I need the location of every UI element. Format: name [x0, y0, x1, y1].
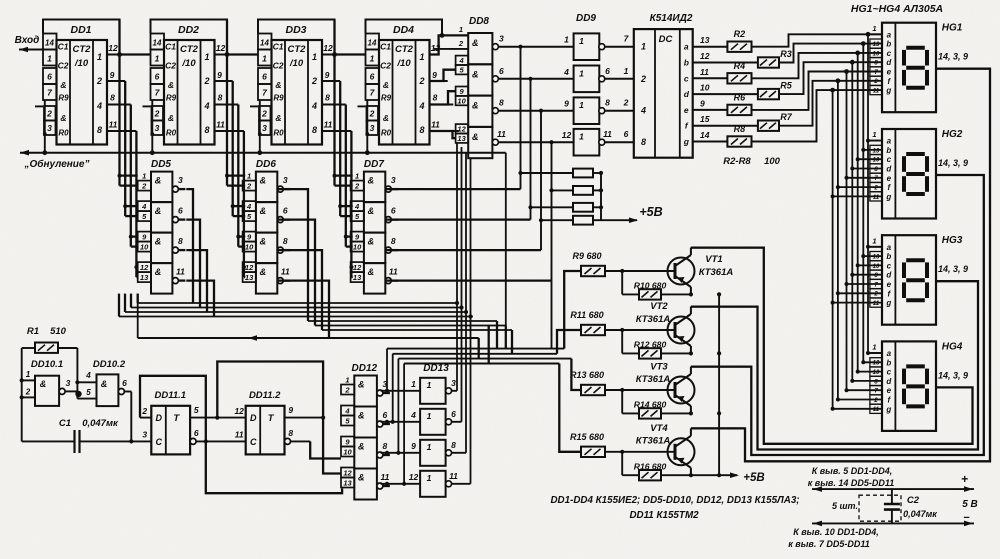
svg-text:9: 9: [288, 405, 293, 415]
svg-text:2: 2: [246, 182, 252, 191]
resistor R14 680: [621, 390, 623, 413]
route DD11.1 Qn to DD12.13: [206, 441, 342, 493]
svg-text:13: 13: [873, 361, 880, 367]
svg-text:b: b: [886, 358, 891, 367]
svg-text:&: &: [368, 206, 375, 216]
svg-text:d: d: [684, 89, 690, 99]
svg-text:1: 1: [427, 442, 432, 452]
DD4 out 9 wire: [430, 80, 448, 82]
transistor VT4 KT361A: [668, 438, 695, 465]
DD4 reset wiring: [366, 100, 368, 153]
svg-text:&: &: [168, 80, 174, 90]
svg-text:b: b: [886, 40, 891, 49]
svg-text:R9 680: R9 680: [572, 251, 601, 261]
resistor R16 680: [621, 452, 623, 475]
svg-text:1: 1: [355, 172, 359, 181]
svg-text:12: 12: [323, 43, 333, 53]
svg-text:e: e: [887, 174, 892, 183]
svg-text:8: 8: [391, 236, 396, 246]
svg-text:DD10.1: DD10.1: [31, 359, 63, 370]
svg-text:6: 6: [499, 66, 504, 76]
svg-text:R0: R0: [273, 129, 284, 138]
svg-text:11: 11: [497, 129, 506, 139]
svg-text:к выв. 7 DD5-DD11: к выв. 7 DD5-DD11: [788, 539, 869, 549]
svg-text:DD12: DD12: [352, 363, 378, 374]
svg-text:КТ361А: КТ361А: [699, 267, 734, 278]
svg-text:14, 3, 9: 14, 3, 9: [938, 370, 968, 380]
svg-text:13: 13: [873, 148, 880, 154]
svg-text:3: 3: [178, 175, 183, 185]
svg-text:R8: R8: [734, 124, 746, 134]
svg-text:2: 2: [141, 182, 147, 191]
svg-text:4: 4: [354, 202, 360, 211]
svg-text:C1: C1: [58, 42, 69, 52]
display HG1 AL305A: [882, 23, 936, 113]
svg-text:9: 9: [432, 70, 437, 80]
svg-text:6: 6: [194, 428, 199, 438]
svg-text:9: 9: [700, 98, 705, 108]
transistor VT3 KT361A: [668, 377, 695, 404]
wire HG4 common to VT1: [691, 248, 973, 444]
svg-text:11: 11: [873, 195, 880, 201]
counter DD4 K155IE2: [366, 20, 443, 36]
svg-text:&: &: [40, 379, 47, 389]
svg-text:К выв. 5 DD1-DD4,: К выв. 5 DD1-DD4,: [812, 466, 893, 476]
svg-text:12: 12: [140, 263, 149, 272]
svg-text:13: 13: [140, 273, 149, 282]
svg-text:8: 8: [204, 125, 209, 135]
svg-text:CT2: CT2: [288, 44, 307, 55]
svg-text:HG1~HG4 АЛ305А: HG1~HG4 АЛ305А: [851, 3, 943, 15]
svg-text:К выв. 10 DD1-DD4,: К выв. 10 DD1-DD4,: [793, 527, 879, 537]
wires DD2 outputs down to DD6: [226, 20, 228, 186]
svg-text:8: 8: [283, 236, 288, 246]
svg-text:14: 14: [368, 39, 377, 48]
svg-text:c: c: [887, 261, 892, 270]
svg-text:e: e: [887, 68, 892, 77]
DD3 out 8 wire: [322, 104, 346, 106]
svg-text:3: 3: [370, 123, 375, 133]
svg-text:C1: C1: [165, 42, 176, 52]
svg-text:14: 14: [700, 130, 710, 140]
svg-text:5: 5: [86, 388, 91, 397]
svg-text:4: 4: [459, 56, 465, 65]
display HG4 AL305A: [882, 341, 936, 431]
inverter DD13.2: [420, 409, 446, 435]
svg-text:&: &: [472, 69, 479, 79]
svg-text:&: &: [368, 267, 375, 277]
svg-text:3: 3: [283, 175, 288, 185]
svg-text:4: 4: [563, 67, 569, 77]
svg-text:11: 11: [216, 120, 225, 130]
svg-text:1: 1: [155, 54, 160, 64]
wire into DD8 pin2: [434, 48, 468, 50]
svg-text:CT2: CT2: [395, 44, 414, 55]
svg-text:10: 10: [245, 243, 254, 252]
svg-text:1: 1: [872, 24, 876, 33]
inverter DD9.1: [574, 33, 600, 60]
wire HG1 common to VT4: [691, 69, 990, 462]
svg-text:4: 4: [85, 371, 91, 380]
svg-text:HG1: HG1: [942, 23, 963, 34]
resistor R10 680: [621, 271, 623, 294]
svg-text:12: 12: [409, 472, 419, 482]
svg-text:R7: R7: [780, 112, 792, 122]
wire DD11.2 Q: [285, 417, 324, 419]
svg-text:8: 8: [288, 428, 293, 438]
transistor VT1 KT361A: [668, 258, 695, 285]
svg-text:13: 13: [245, 273, 254, 282]
svg-text:1: 1: [872, 236, 876, 245]
inverter DD9.3: [574, 97, 600, 124]
svg-text:C1: C1: [59, 418, 71, 429]
svg-text:HG3: HG3: [942, 235, 963, 246]
svg-text:1: 1: [247, 172, 251, 181]
svg-text:1: 1: [370, 54, 375, 64]
svg-text:1: 1: [564, 35, 569, 45]
svg-text:2: 2: [873, 79, 878, 85]
svg-text:13: 13: [873, 255, 880, 261]
svg-text:1: 1: [872, 343, 876, 352]
svg-text:e: e: [887, 280, 892, 289]
wire cascade DD1.12 -> DD2.C1: [120, 53, 151, 55]
svg-text:0,047мк: 0,047мк: [903, 509, 937, 519]
svg-text:e: e: [887, 386, 892, 395]
wire DD11.1 Qn row: [196, 440, 246, 442]
svg-text:1: 1: [459, 25, 463, 34]
DD3 out 12 wire: [322, 54, 335, 56]
DD3 reset wiring: [259, 100, 261, 153]
strobe verticals DD13 outputs up: [456, 143, 458, 391]
svg-text:c: c: [887, 368, 892, 377]
DD4 out 11 wire: [430, 130, 459, 132]
svg-text:Вход: Вход: [15, 35, 40, 46]
svg-text:a: a: [887, 30, 892, 39]
resistor R5 100: [693, 93, 758, 95]
svg-text:R5: R5: [780, 81, 792, 91]
svg-text:VT2: VT2: [650, 301, 668, 312]
collector rails: [691, 247, 764, 249]
DD11.1 feedback bracket: [140, 376, 206, 442]
DD3 out 11 wire: [322, 130, 351, 132]
inverter DD9.2: [574, 66, 600, 93]
svg-text:12: 12: [343, 469, 352, 478]
svg-text:2: 2: [873, 398, 878, 404]
svg-text:HG2: HG2: [942, 129, 963, 140]
svg-text:b: b: [684, 58, 689, 68]
svg-text:8: 8: [218, 93, 223, 103]
svg-text:/10: /10: [396, 58, 411, 69]
svg-text:1: 1: [624, 66, 629, 76]
svg-text:10: 10: [873, 51, 880, 57]
svg-text:8: 8: [97, 125, 102, 135]
DD1 out 12 wire: [107, 54, 120, 56]
svg-text:1: 1: [579, 36, 584, 46]
svg-text:R16 680: R16 680: [634, 461, 667, 471]
svg-text:&: &: [260, 267, 267, 277]
svg-text:3: 3: [451, 378, 456, 388]
svg-text:11: 11: [873, 301, 880, 307]
svg-text:C2: C2: [380, 61, 391, 71]
svg-text:11: 11: [449, 471, 458, 481]
svg-text:1: 1: [579, 68, 584, 78]
svg-text:4: 4: [246, 202, 252, 211]
svg-text:К514ИД2: К514ИД2: [650, 13, 693, 24]
svg-text:&: &: [60, 113, 66, 123]
wires DD4 outputs to DD8 inputs: [430, 35, 469, 54]
svg-text:c: c: [684, 73, 689, 83]
svg-text:C1: C1: [380, 42, 391, 52]
svg-text:3: 3: [499, 34, 504, 44]
wire cascade DD3.12 -> DD4.C1: [335, 53, 366, 55]
svg-text:DD2: DD2: [178, 24, 199, 36]
svg-text:&: &: [358, 411, 365, 421]
wire R4 to segment bus: [752, 53, 883, 78]
wire HG2 common to VT3: [691, 175, 984, 455]
resistor R3 100: [693, 62, 758, 64]
svg-text:R9: R9: [273, 94, 284, 103]
svg-text:&: &: [472, 38, 479, 48]
svg-text:8: 8: [383, 441, 388, 451]
svg-text:HG4: HG4: [942, 341, 963, 352]
svg-text:&: &: [101, 379, 108, 389]
svg-text:b: b: [886, 146, 891, 155]
svg-text:/10: /10: [74, 58, 89, 69]
svg-text:DD3: DD3: [285, 24, 306, 36]
svg-text:DC: DC: [659, 34, 673, 45]
wire R7 to segment bus: [779, 81, 882, 126]
DD2 reset wiring: [151, 100, 153, 153]
svg-text:к выв. 14 DD5-DD11: к выв. 14 DD5-DD11: [808, 478, 894, 488]
svg-text:КТ361А: КТ361А: [636, 374, 671, 385]
svg-text:D: D: [156, 413, 163, 423]
svg-text:c: c: [887, 155, 892, 164]
svg-text:10: 10: [353, 243, 362, 252]
svg-text:8: 8: [433, 93, 438, 103]
svg-text:C1: C1: [273, 42, 284, 52]
svg-text:2: 2: [141, 406, 147, 416]
svg-text:10: 10: [873, 370, 880, 376]
svg-text:VT4: VT4: [650, 423, 668, 434]
svg-text:DD9: DD9: [576, 13, 596, 24]
svg-text:11: 11: [873, 89, 880, 95]
svg-text:13: 13: [700, 35, 710, 45]
svg-text:1: 1: [204, 52, 209, 62]
svg-text:2: 2: [25, 388, 31, 397]
svg-text:2: 2: [154, 109, 160, 119]
DD6 output drop wires: [277, 189, 308, 321]
svg-text:3: 3: [142, 430, 147, 440]
DD11.2 feedback bracket: [217, 362, 323, 418]
svg-text:R6: R6: [734, 92, 746, 102]
svg-text:8: 8: [325, 93, 330, 103]
svg-text:DD10.2: DD10.2: [93, 359, 126, 370]
svg-text:КТ361А: КТ361А: [636, 314, 671, 325]
svg-text:/10: /10: [289, 58, 304, 69]
svg-text:8: 8: [605, 98, 610, 108]
svg-text:&: &: [260, 206, 267, 216]
svg-text:3: 3: [47, 123, 52, 133]
svg-text:14, 3, 9: 14, 3, 9: [938, 264, 968, 274]
svg-text:4: 4: [203, 101, 209, 111]
svg-text:4: 4: [344, 407, 350, 416]
svg-text:12: 12: [562, 130, 572, 140]
wire cascade DD2.12 -> DD3.C1: [227, 53, 258, 55]
wire R2 to segment bus: [752, 34, 883, 46]
svg-text:R0: R0: [58, 129, 69, 138]
resistor R11 680: [581, 325, 605, 335]
svg-text:11: 11: [873, 407, 880, 413]
svg-text:9: 9: [217, 70, 222, 80]
strobe wire bundle (middle): [138, 302, 456, 304]
svg-text:5 В: 5 В: [962, 499, 978, 510]
inverter DD13.1: [420, 378, 446, 404]
svg-text:6: 6: [624, 129, 629, 139]
svg-text:&: &: [383, 80, 389, 90]
svg-text:R12 680: R12 680: [634, 340, 667, 350]
resistor R13 680: [581, 385, 605, 395]
svg-text:DD5: DD5: [151, 159, 171, 170]
resistor R9 680: [581, 266, 605, 276]
svg-text:1: 1: [47, 54, 52, 64]
svg-text:6: 6: [391, 206, 396, 216]
svg-text:C: C: [250, 437, 257, 447]
vertical seg near x551 down to bus: [551, 281, 553, 349]
svg-text:8: 8: [641, 137, 646, 147]
svg-text:9: 9: [564, 99, 569, 109]
svg-text:1: 1: [579, 100, 584, 110]
svg-text:+5В: +5В: [639, 205, 662, 219]
svg-text:DD6: DD6: [256, 159, 276, 170]
wire DD11.1 Q to DD11.2 D: [190, 417, 246, 419]
digit select bus to R9/R11/R13/R15: [387, 348, 564, 350]
svg-text:8: 8: [419, 125, 424, 135]
svg-text:11: 11: [324, 120, 333, 130]
svg-text:1: 1: [641, 42, 646, 52]
svg-text:2: 2: [311, 76, 317, 86]
svg-text:DD13: DD13: [423, 363, 449, 374]
wire R1 left vertical: [21, 348, 23, 441]
svg-text:1: 1: [411, 379, 416, 389]
svg-text:6: 6: [178, 206, 183, 216]
inverter DD9.4: [574, 129, 600, 156]
svg-text:12: 12: [353, 263, 362, 272]
svg-text:b: b: [886, 252, 891, 261]
svg-text:&: &: [60, 80, 66, 90]
svg-text:&: &: [155, 267, 162, 277]
svg-text:10: 10: [700, 83, 710, 93]
resistor R4 100: [693, 77, 728, 79]
svg-text:8: 8: [312, 125, 317, 135]
svg-text:C2: C2: [58, 61, 69, 71]
svg-text:1: 1: [97, 52, 102, 62]
svg-text:1: 1: [312, 52, 317, 62]
svg-text:&: &: [358, 473, 365, 483]
svg-text:R1: R1: [27, 326, 39, 337]
svg-text:R3: R3: [780, 49, 792, 59]
wire DD10.2 out down to C: [130, 392, 132, 442]
svg-text:CT2: CT2: [180, 44, 199, 55]
counter DD3 K155IE2: [258, 20, 335, 55]
svg-text:14, 3, 9: 14, 3, 9: [938, 158, 968, 168]
svg-text:R15 680: R15 680: [570, 432, 604, 442]
svg-text:14, 3, 9: 14, 3, 9: [938, 52, 968, 62]
wire C1 to DD11.1 C: [131, 440, 151, 442]
svg-text:12: 12: [108, 43, 118, 53]
DD5 output drop wires: [186, 189, 193, 303]
svg-text:R4: R4: [734, 61, 746, 71]
svg-text:14: 14: [153, 39, 162, 48]
svg-text:4: 4: [141, 202, 147, 211]
resistor R7 100: [693, 125, 758, 127]
svg-text:DD1: DD1: [70, 24, 91, 36]
svg-text:0,047мк: 0,047мк: [82, 418, 119, 429]
svg-text:3: 3: [155, 123, 160, 133]
svg-text:a: a: [887, 137, 892, 146]
svg-text:2: 2: [369, 109, 375, 119]
svg-text:R0: R0: [166, 129, 177, 138]
svg-text:10: 10: [140, 243, 149, 252]
svg-text:g: g: [885, 192, 891, 201]
svg-text:6: 6: [383, 410, 388, 420]
wires DD3 outputs down to DD7: [333, 20, 335, 186]
svg-text:1: 1: [345, 376, 349, 385]
route DD11.2 Q to DD12: [323, 418, 341, 474]
svg-text:R2: R2: [734, 29, 746, 39]
svg-text:g: g: [885, 405, 891, 414]
svg-text:DD8: DD8: [469, 16, 489, 27]
svg-text:C2: C2: [907, 495, 920, 506]
svg-text:6: 6: [451, 409, 456, 419]
DD2 out 9 wire: [215, 80, 233, 82]
wire reset bus 'Obnulenie': [20, 152, 506, 154]
svg-text:13: 13: [353, 273, 362, 282]
svg-text:c: c: [887, 49, 892, 58]
svg-text:&: &: [368, 176, 375, 186]
svg-text:6: 6: [370, 72, 375, 82]
DD4 out 8 wire: [430, 104, 454, 106]
svg-text:КТ361А: КТ361А: [636, 436, 671, 447]
svg-text:2: 2: [261, 109, 267, 119]
svg-text:2: 2: [354, 182, 360, 191]
svg-text:C: C: [156, 437, 163, 447]
svg-text:R10 680: R10 680: [634, 281, 667, 291]
svg-text:3: 3: [391, 175, 396, 185]
DD2 out 8 wire: [215, 104, 239, 106]
svg-text:a: a: [887, 349, 892, 358]
svg-text:1: 1: [26, 370, 31, 379]
svg-text:6: 6: [122, 378, 127, 388]
svg-text:g: g: [683, 137, 690, 147]
svg-text:&: &: [155, 206, 162, 216]
svg-text:VT3: VT3: [650, 362, 668, 373]
transistor VT2 KT361A: [668, 317, 695, 344]
inverter DD13.3: [420, 440, 446, 466]
svg-text:3: 3: [262, 123, 267, 133]
svg-text:11: 11: [235, 430, 244, 440]
DD3 out 9 wire: [322, 80, 340, 82]
svg-text:8: 8: [451, 440, 456, 450]
svg-text:/10: /10: [181, 58, 196, 69]
svg-text:a: a: [684, 42, 689, 52]
svg-text:&: &: [383, 113, 389, 123]
display HG2 AL305A: [882, 129, 936, 219]
svg-text:R13 680: R13 680: [570, 370, 604, 380]
svg-text:10: 10: [343, 448, 352, 457]
svg-text:CT2: CT2: [73, 44, 92, 55]
svg-text:2: 2: [640, 74, 646, 84]
svg-text:2: 2: [623, 98, 629, 108]
